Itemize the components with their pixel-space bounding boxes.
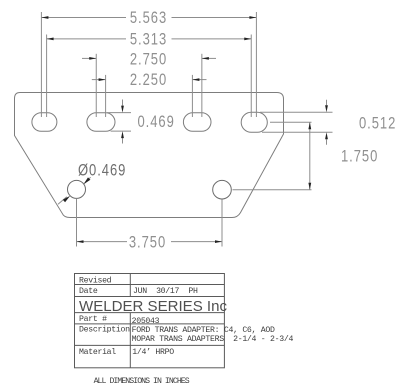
svg-text:0.512: 0.512 — [359, 115, 396, 133]
svg-text:3.750: 3.750 — [129, 234, 166, 252]
svg-text:MOPAR TRANS ADAPTERS 2-1/4 -: MOPAR TRANS ADAPTERS 2-1/4 - 2-3/4 — [132, 334, 294, 344]
svg-text:Revised: Revised — [79, 276, 112, 286]
svg-text:FORD TRANS ADAPTER: C4, C6, AO: FORD TRANS ADAPTER: C4, C6, AOD — [132, 326, 275, 335]
svg-text:Ø0.469: Ø0.469 — [78, 162, 126, 180]
svg-text:WELDER SERIES Inc: WELDER SERIES Inc — [79, 298, 227, 315]
svg-text:2.750: 2.750 — [130, 51, 167, 69]
svg-text:JUN 30/17 PH: JUN 30/17 PH — [133, 286, 198, 296]
svg-text:Description: Description — [79, 324, 130, 334]
svg-text:2.250: 2.250 — [130, 72, 167, 90]
svg-text:Date: Date — [79, 287, 98, 296]
svg-text:1.750: 1.750 — [341, 148, 378, 166]
svg-text:ALL DIMENSIONS IN INCHES: ALL DIMENSIONS IN INCHES — [94, 377, 190, 386]
svg-text:1/4’ HRPO: 1/4’ HRPO — [132, 347, 174, 357]
svg-text:Part #: Part # — [79, 315, 107, 324]
svg-text:0.469: 0.469 — [138, 114, 175, 132]
svg-text:5.313: 5.313 — [130, 31, 167, 49]
svg-text:205043: 205043 — [132, 317, 160, 326]
svg-text:Material: Material — [79, 347, 116, 357]
svg-text:5.563: 5.563 — [130, 10, 167, 28]
